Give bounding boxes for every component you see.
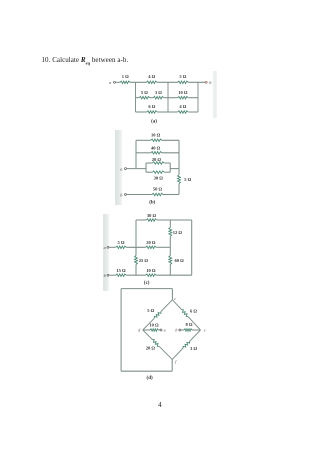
wire box bottom-right lead bbox=[164, 171, 170, 173]
wire 25ohm to bottom (c) bbox=[135, 265, 137, 276]
wire 12ohm top lead bbox=[169, 220, 171, 227]
resistor 5 Ohm diagonal c-d bbox=[161, 300, 172, 312]
wire middle row left bbox=[136, 97, 140, 99]
resistor 20 Ohm diagonal d-f bbox=[143, 330, 153, 340]
wire 5ohm to left rail (c) bbox=[126, 246, 145, 248]
svg-text:5 Ω: 5 Ω bbox=[147, 308, 154, 313]
resistor 50 Ohm bbox=[152, 193, 163, 196]
wire 60ohm bottom lead bbox=[169, 265, 171, 276]
scan-edge shading left of circuit (c) bbox=[103, 214, 110, 291]
svg-text:5 Ω: 5 Ω bbox=[179, 74, 186, 79]
wire 10ohm to right rail bbox=[188, 97, 198, 99]
wire 10ohm branch right bbox=[162, 139, 179, 141]
scan-edge shading left of circuit (b) bbox=[115, 130, 122, 205]
svg-text:b: b bbox=[120, 192, 123, 197]
wire box to right rail bbox=[170, 168, 179, 170]
svg-text:(b): (b) bbox=[149, 201, 155, 206]
wire b to 50ohm bbox=[126, 194, 152, 196]
wire middle rail vertical bbox=[167, 82, 169, 112]
wire 4ohm to mid rail bbox=[157, 81, 178, 83]
svg-text:a: a bbox=[120, 166, 123, 171]
svg-text:e: e bbox=[204, 328, 206, 333]
resistor 12 Ohm bbox=[169, 227, 172, 236]
resistor 10 Ohm bbox=[178, 96, 189, 99]
resistor 20 Ohm (c) bbox=[146, 246, 157, 249]
svg-text:a: a bbox=[109, 80, 112, 85]
svg-text:10 Ω: 10 Ω bbox=[178, 90, 188, 95]
wire 40ohm branch left bbox=[136, 152, 151, 154]
resistor 4 Ohm bbox=[146, 81, 157, 84]
resistor 5 Ohm middle bbox=[139, 96, 150, 99]
resistor 25 Ohm bbox=[135, 256, 138, 265]
wire box bottom-left lead bbox=[146, 171, 152, 173]
wire b to 8ohm bbox=[181, 329, 184, 331]
resistor 30 Ohm bbox=[152, 171, 164, 174]
resistor 20 Ohm bbox=[152, 162, 164, 165]
wire right rail lower (b) bbox=[178, 184, 180, 195]
wire d to 10ohm bbox=[143, 329, 150, 331]
svg-text:3 Ω: 3 Ω bbox=[155, 90, 162, 95]
resistor 15 Ohm bbox=[116, 274, 127, 277]
svg-text:5 Ω: 5 Ω bbox=[118, 240, 125, 245]
wire a to 5ohm bbox=[109, 246, 116, 248]
wire left rail (b) bbox=[135, 140, 137, 168]
svg-text:25 Ω: 25 Ω bbox=[139, 258, 149, 263]
wire left rail vertical bbox=[135, 82, 137, 112]
resistor 5 Ohm vertical bbox=[178, 175, 181, 184]
svg-text:6 Ω: 6 Ω bbox=[148, 104, 155, 109]
wire left rail to 25ohm bbox=[135, 247, 137, 255]
wire mid rail to 4ohm bottom bbox=[168, 111, 178, 113]
wire left rail top segment (c) bbox=[135, 220, 137, 247]
problem title bbox=[42, 56, 129, 65]
svg-text:15 Ω: 15 Ω bbox=[116, 268, 126, 273]
wire 50ohm to right rail bbox=[163, 194, 179, 196]
wire box top-left lead bbox=[146, 162, 152, 164]
resistor 3 Ohm diagonal e-f bbox=[190, 330, 201, 341]
resistor 10 Ohm (b) bbox=[151, 139, 162, 142]
wire bottom branch right (c) bbox=[156, 274, 192, 276]
svg-text:20 Ω: 20 Ω bbox=[152, 157, 162, 162]
wire right rail (c) bbox=[191, 220, 193, 275]
resistor 60 Ohm bbox=[169, 256, 172, 265]
wire stub from bottom wire up to node f (d) bbox=[171, 359, 173, 371]
svg-text:d: d bbox=[138, 328, 141, 333]
svg-text:5 Ω: 5 Ω bbox=[184, 177, 191, 182]
resistor 8 Ohm (d) bbox=[184, 329, 192, 332]
svg-text:40 Ω: 40 Ω bbox=[151, 146, 161, 151]
wire 4ohm bottom to right rail bbox=[188, 111, 198, 113]
wire 20ohm to mid rail (c) bbox=[156, 246, 170, 248]
wire right rail upper (b) bbox=[178, 140, 180, 174]
wire stub from node c up (d) bbox=[171, 289, 173, 300]
scan-edge shading right of circuit (a) bbox=[212, 71, 217, 118]
svg-text:4 Ω: 4 Ω bbox=[179, 104, 186, 109]
svg-text:20 Ω: 20 Ω bbox=[146, 240, 156, 245]
svg-text:b: b bbox=[175, 328, 177, 333]
wire a to box bbox=[126, 168, 146, 170]
svg-text:30 Ω: 30 Ω bbox=[154, 176, 164, 181]
resistor 5 Ohm top bbox=[178, 81, 189, 84]
svg-text:(c): (c) bbox=[144, 281, 150, 286]
resistor 4 Ohm bottom bbox=[178, 111, 189, 114]
svg-text:60 Ω: 60 Ω bbox=[175, 258, 185, 263]
svg-text:50 Ω: 50 Ω bbox=[153, 187, 163, 192]
wire outer loop bottom (d) bbox=[121, 370, 172, 372]
wire 5ohm to b bbox=[188, 81, 205, 83]
wire box right edge bbox=[169, 163, 171, 172]
wire 15ohm to left rail (c) bbox=[126, 274, 145, 276]
wire R1 to left rail bbox=[130, 81, 147, 83]
svg-text:5 Ω: 5 Ω bbox=[141, 90, 148, 95]
wire bottom row left bbox=[136, 111, 147, 113]
svg-text:4 Ω: 4 Ω bbox=[148, 74, 155, 79]
resistor 40 Ohm bbox=[151, 152, 162, 155]
wire a to R1 bbox=[115, 81, 120, 83]
node b (circuit a) bbox=[205, 81, 207, 83]
wire box left edge bbox=[145, 163, 147, 172]
svg-text:8 Ω: 8 Ω bbox=[186, 322, 193, 327]
resistor 6 Ohm bbox=[147, 111, 158, 114]
wire outer loop left (d) bbox=[120, 289, 122, 372]
wire 40ohm branch right bbox=[162, 152, 179, 154]
node a (circuit d) bbox=[160, 329, 162, 331]
resistor 10 Ohm (c) bbox=[146, 274, 157, 277]
resistor 6 Ohm diagonal c-e bbox=[172, 300, 181, 310]
svg-text:10 Ω: 10 Ω bbox=[151, 132, 161, 137]
svg-text:12 Ω: 12 Ω bbox=[173, 230, 183, 235]
wire mid rail to 10ohm bbox=[168, 97, 178, 99]
wire 6ohm to mid rail bbox=[157, 111, 168, 113]
wire outer loop top (d) bbox=[121, 288, 172, 290]
svg-text:1 Ω: 1 Ω bbox=[122, 74, 129, 79]
svg-text:a: a bbox=[164, 328, 166, 333]
page number bbox=[158, 400, 162, 409]
resistor 10 Ohm (d) bbox=[150, 329, 158, 332]
svg-text:3 Ω: 3 Ω bbox=[190, 346, 197, 351]
svg-text:b: b bbox=[209, 80, 212, 85]
svg-text:(d): (d) bbox=[147, 376, 153, 381]
svg-text:10 Ω: 10 Ω bbox=[149, 322, 159, 327]
wire 8ohm to e bbox=[192, 329, 201, 331]
svg-text:6 Ω: 6 Ω bbox=[190, 308, 197, 313]
resistor 5 Ohm (c) bbox=[116, 246, 127, 249]
wire b to 15ohm bbox=[109, 274, 116, 276]
svg-text:b: b bbox=[104, 273, 106, 278]
resistor 3 Ohm bbox=[153, 96, 164, 99]
wire right rail vertical bbox=[197, 82, 199, 112]
wire between 5 and 3 ohm bbox=[150, 97, 154, 99]
wire 12ohm bottom lead bbox=[169, 236, 171, 247]
wire 60ohm top lead bbox=[169, 247, 171, 255]
wire top branch left (c) bbox=[136, 219, 146, 221]
svg-text:c: c bbox=[174, 296, 176, 301]
svg-text:a: a bbox=[104, 245, 106, 250]
wire box top-right lead bbox=[164, 162, 170, 164]
svg-text:10 Ω: 10 Ω bbox=[146, 268, 156, 273]
svg-text:30 Ω: 30 Ω bbox=[147, 213, 157, 218]
resistor 30 Ohm (c) bbox=[146, 219, 157, 222]
svg-text:(a): (a) bbox=[151, 119, 157, 124]
resistor 1 Ohm bbox=[120, 81, 130, 84]
svg-text:f: f bbox=[175, 359, 177, 364]
wire 10ohm branch left bbox=[136, 139, 151, 141]
wire 10ohm to a bbox=[158, 329, 160, 331]
wire 3ohm to mid rail bbox=[164, 97, 168, 99]
svg-text:20 Ω: 20 Ω bbox=[146, 345, 156, 350]
wire top branch right (c) bbox=[157, 219, 192, 221]
